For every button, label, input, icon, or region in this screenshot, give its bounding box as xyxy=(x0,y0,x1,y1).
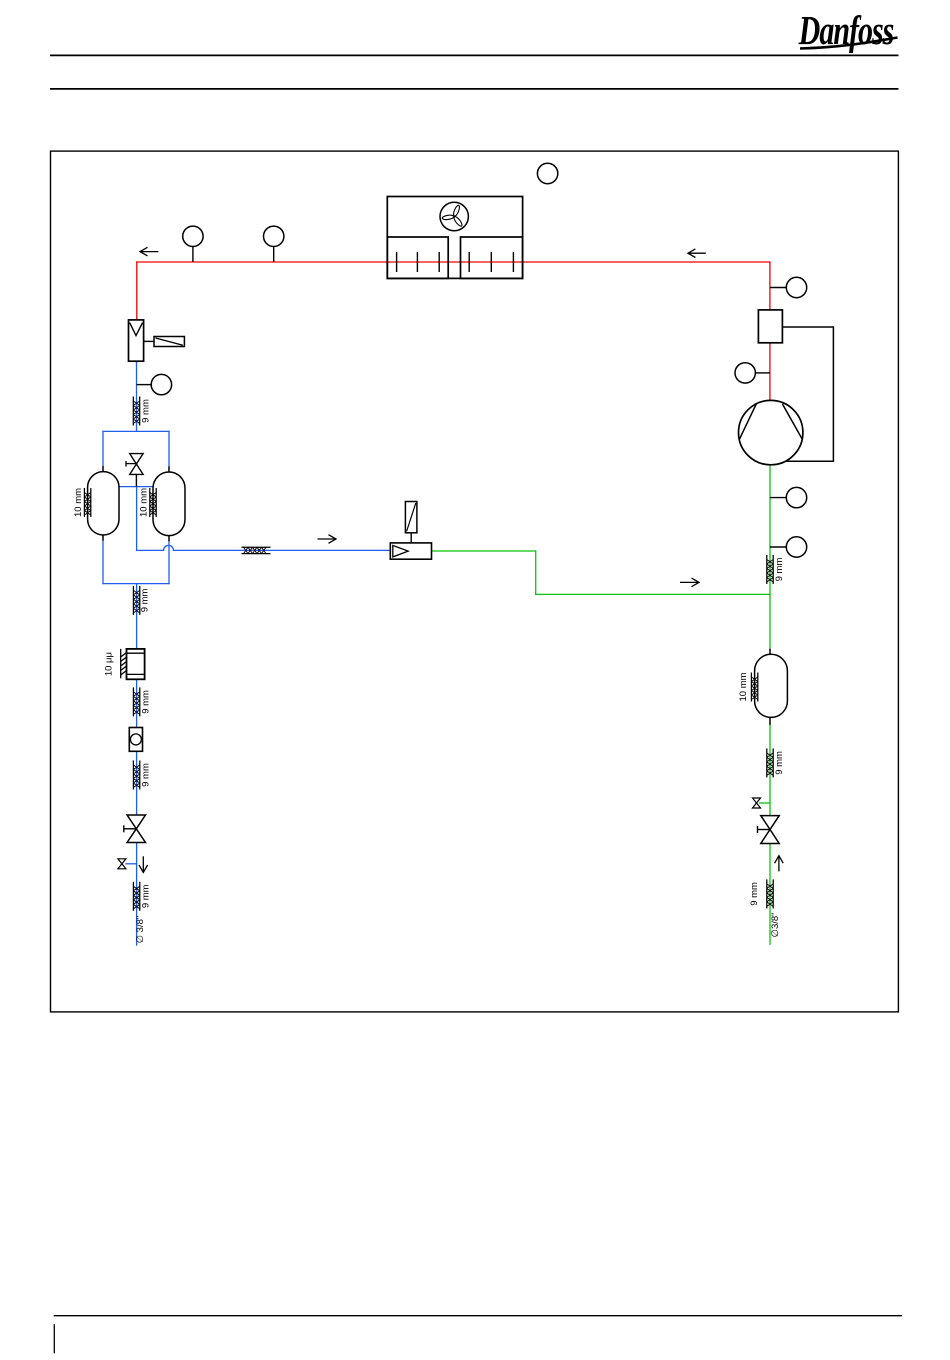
sensor P2 xyxy=(786,487,806,507)
svg-text:9 mm: 9 mm xyxy=(141,763,152,787)
wire: schrader stub left (blue) xyxy=(126,863,137,865)
wire: HX right leg lower (blue) xyxy=(168,541,170,583)
wire: muffler to compressor (red) xyxy=(769,342,771,401)
svg-text:10 mm: 10 mm xyxy=(738,672,749,701)
wire: suction drop (green) xyxy=(535,551,537,594)
compressor bypass loop xyxy=(782,327,833,461)
wire: filter drier to sight glass (blue) xyxy=(136,679,138,728)
suction accumulator xyxy=(755,654,788,717)
wire: HX capsule crossover (blue) xyxy=(119,486,153,488)
KVP pressure regulator body xyxy=(129,320,144,361)
svg-text:10 mm: 10 mm xyxy=(73,488,84,517)
discharge muffler xyxy=(758,310,782,343)
wire: KVP valve outlet down to heat exchanger (blue) xyxy=(136,361,138,432)
wire: HX left leg upper (blue) xyxy=(102,431,104,466)
sensor T1 xyxy=(183,226,203,246)
svg-text:9 mm: 9 mm xyxy=(141,399,152,423)
condenser outer shell xyxy=(387,197,522,279)
sensor T1 stem xyxy=(192,246,194,262)
wire: HX outlet down to filter drier (blue) xyxy=(136,584,138,650)
svg-text:∅ 3/8": ∅ 3/8" xyxy=(135,916,146,944)
compressor xyxy=(739,400,803,464)
sensor T4 stem xyxy=(755,372,770,374)
footer rule xyxy=(54,1315,902,1317)
sensor T5 xyxy=(786,537,806,557)
flow arrow suction line xyxy=(680,578,699,587)
sensor P3 stem xyxy=(137,384,152,386)
sensor P2 stem xyxy=(770,497,787,499)
flow arrow top right xyxy=(688,249,706,258)
wire: hop over HX right leg (blue) xyxy=(164,545,174,550)
sensor T3 ambient xyxy=(537,163,557,183)
braze joint filter drier 10uu xyxy=(121,649,127,678)
sensor T2 xyxy=(264,226,284,246)
filter drier xyxy=(127,649,145,679)
wire: liquid take-off drop (blue) xyxy=(136,487,138,551)
braze joint accumulator 10mm xyxy=(751,673,757,702)
sight glass xyxy=(129,728,142,752)
wire: discharge line left drop to KVP valve (red) xyxy=(136,262,138,321)
wire: liquid line to hop (blue) xyxy=(137,549,164,551)
wire: schrader stub right (green) xyxy=(760,802,771,804)
wire: sight glass to shut-off valve (blue) xyxy=(136,751,138,816)
KVP cone xyxy=(130,323,143,336)
HX left capsule xyxy=(88,472,119,535)
diagram border frame xyxy=(51,151,899,1012)
header rule 2 xyxy=(50,88,899,90)
sensor T4 xyxy=(735,363,755,383)
TEV element xyxy=(405,502,417,533)
wire: discharge line horizontal (red) xyxy=(137,261,770,263)
sensor P1 xyxy=(786,277,806,297)
Danfoss logo xyxy=(798,8,898,54)
svg-text:10 μμ: 10 μμ xyxy=(104,652,115,676)
liquid shut-off valve xyxy=(124,815,146,843)
svg-text:∅3/8": ∅3/8" xyxy=(770,912,781,937)
braze joint 9mm suction upper xyxy=(767,555,773,584)
wire: HX right leg upper (blue) xyxy=(168,431,170,466)
braze joint 9mm below drier xyxy=(133,687,139,716)
flow arrow top left xyxy=(140,247,158,256)
flow arrow liquid line xyxy=(318,535,337,544)
sensor T2 stem xyxy=(273,246,275,262)
condenser coil section left xyxy=(387,237,448,278)
KVP actuator stem xyxy=(144,340,154,342)
HX charge valve xyxy=(126,454,143,487)
braze joint 9mm suction end xyxy=(767,879,773,908)
braze joint left capsule 10mm xyxy=(84,488,90,517)
braze joint 9mm below accumulator xyxy=(767,748,773,777)
wire: HX bottom edge (blue) xyxy=(103,583,169,585)
svg-text:9 mm: 9 mm xyxy=(141,884,152,908)
wire: expansion valve to riser (green) xyxy=(432,550,536,552)
flow arrow liquid end down xyxy=(139,856,148,872)
svg-text:9 mm: 9 mm xyxy=(774,558,785,582)
sensor P3 xyxy=(151,374,171,394)
HX right capsule stems xyxy=(168,466,170,472)
suction shut-off valve xyxy=(758,816,780,844)
braze joint 9mm liquid end xyxy=(133,882,139,911)
schrader valve right xyxy=(753,798,761,808)
accumulator stems xyxy=(769,649,771,655)
wire: suction line horizontal (green) xyxy=(536,593,770,595)
svg-text:9 mm: 9 mm xyxy=(141,690,152,714)
condenser coil section right xyxy=(461,237,523,278)
header rule 1 xyxy=(50,54,899,56)
HX right capsule xyxy=(153,472,185,536)
sensor P1 stem xyxy=(770,287,787,289)
footer tick xyxy=(53,1324,55,1353)
svg-text:9 mm: 9 mm xyxy=(774,751,785,775)
braze joint 9mm below KVP xyxy=(133,397,139,426)
wire: valve to suction end (green) xyxy=(769,843,771,944)
svg-text:9 mm: 9 mm xyxy=(140,588,151,612)
svg-text:9 mm: 9 mm xyxy=(749,882,760,906)
braze joint 9mm below sight glass xyxy=(133,761,139,790)
wire: compressor suction drop (green) xyxy=(769,464,771,649)
KVP actuator xyxy=(154,337,184,347)
flow arrow suction end up xyxy=(775,856,784,872)
wire: discharge line right drop to muffler (red) xyxy=(769,262,771,311)
braze joint horizontal on liquid line xyxy=(242,547,271,553)
braze joint 9mm below HX xyxy=(133,586,139,615)
braze joint right capsule 10mm xyxy=(150,488,156,517)
condenser fan xyxy=(440,202,468,230)
wire: liquid line to expansion valve (blue) xyxy=(174,549,391,551)
sensor T5 stem xyxy=(770,546,787,548)
svg-text:10 mm: 10 mm xyxy=(139,488,150,517)
HX left capsule stems xyxy=(102,466,104,472)
wire: heat exchanger top edge (blue) xyxy=(103,430,169,432)
expansion valve TEV xyxy=(390,533,431,559)
wire: accumulator to valve (green) xyxy=(769,725,771,816)
wire: HX left leg lower (blue) xyxy=(102,541,104,584)
wire: valve to liquid line end (blue) xyxy=(136,842,138,945)
schrader valve left xyxy=(118,859,126,869)
condenser coil ticks xyxy=(397,252,514,272)
